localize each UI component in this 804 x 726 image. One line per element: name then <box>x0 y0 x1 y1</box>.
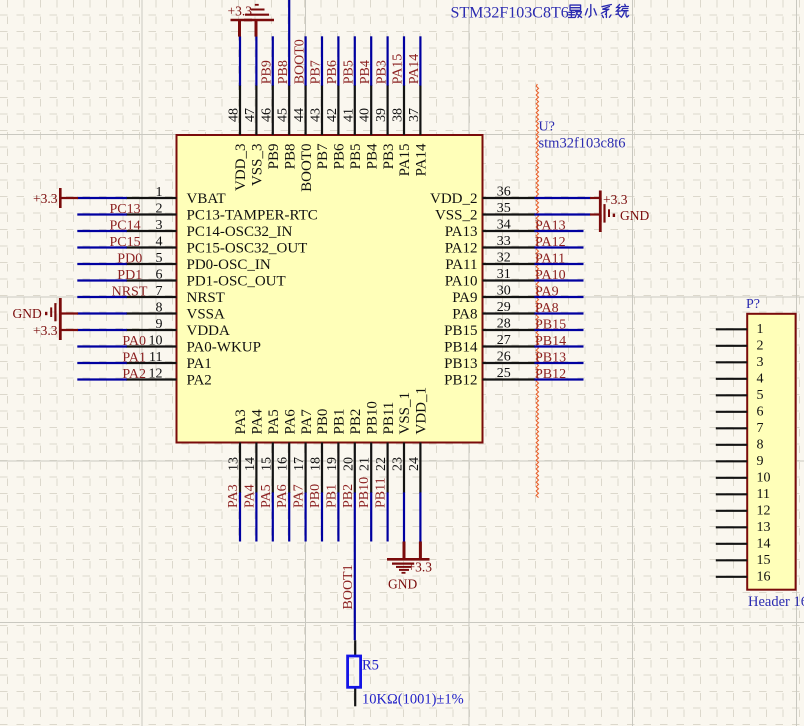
svg-text:PB0: PB0 <box>308 484 323 508</box>
header pin 4 (wire+name) <box>716 371 764 386</box>
pin 30 PA9 (wire+number+name) <box>452 284 583 307</box>
svg-text:8: 8 <box>757 437 764 452</box>
svg-text:PB13: PB13 <box>535 351 566 366</box>
svg-text:9: 9 <box>156 317 163 332</box>
svg-text:10KΩ(1001)±1%: 10KΩ(1001)±1% <box>362 692 464 708</box>
pin 28 PB15 (wire+number+name) <box>444 317 583 340</box>
pin 41 PB5 (wire+number+name) <box>341 36 364 169</box>
svg-text:STM32F103C8T6: STM32F103C8T6 <box>451 5 569 22</box>
pin 23 VSS_1 (wire+number+name) <box>391 392 414 542</box>
svg-text:Header 16: Header 16 <box>748 594 804 610</box>
pin 11 PA1 (wire+number+name) <box>77 350 212 372</box>
svg-text:PB11: PB11 <box>381 402 397 435</box>
svg-text:PB4: PB4 <box>358 60 373 84</box>
pin 39 PB3 (wire+number+name) <box>374 36 397 169</box>
svg-text:PB12: PB12 <box>444 373 477 389</box>
svg-text:PB8: PB8 <box>276 60 291 84</box>
power +3.3 (left, pin 9) <box>33 323 78 338</box>
svg-text:10: 10 <box>149 334 163 349</box>
svg-text:12: 12 <box>757 503 771 518</box>
svg-text:4: 4 <box>757 371 764 386</box>
pin 36 VDD_2 (wire+number+name) <box>430 185 591 208</box>
svg-text:PA14: PA14 <box>407 54 422 85</box>
pin 43 PB7 (wire+number+name) <box>309 36 332 169</box>
pin 4 PC15-OSC32_OUT (wire+number+name) <box>77 235 307 257</box>
header pin 2 (wire+name) <box>716 338 764 353</box>
svg-text:PB1: PB1 <box>324 484 339 508</box>
svg-text:PA1: PA1 <box>122 351 146 366</box>
svg-text:R5: R5 <box>362 658 379 674</box>
svg-text:PB11: PB11 <box>374 477 389 508</box>
svg-text:45: 45 <box>276 108 291 122</box>
svg-text:23: 23 <box>391 457 406 471</box>
svg-text:3: 3 <box>757 355 764 370</box>
header pin 10 (wire+name) <box>716 470 771 485</box>
resistor R5 pin wires <box>354 640 356 706</box>
svg-text:9: 9 <box>757 454 764 469</box>
svg-text:+3.3: +3.3 <box>408 560 433 575</box>
power GND (right, pin 35) <box>590 204 649 223</box>
svg-text:PB1: PB1 <box>332 409 348 435</box>
svg-text:33: 33 <box>497 234 511 249</box>
svg-text:12: 12 <box>149 367 163 382</box>
svg-text:21: 21 <box>358 457 373 471</box>
svg-text:11: 11 <box>149 350 162 365</box>
svg-text:PA12: PA12 <box>535 235 566 250</box>
svg-text:PA10: PA10 <box>535 268 566 283</box>
svg-text:VSSA: VSSA <box>187 307 226 323</box>
pin 26 PB13 (wire+number+name) <box>444 350 583 373</box>
svg-text:stm32f103c8t6: stm32f103c8t6 <box>539 136 626 152</box>
pin 37 PA14 (wire+number+name) <box>407 36 430 176</box>
svg-text:PC14-OSC32_IN: PC14-OSC32_IN <box>187 224 293 240</box>
svg-text:36: 36 <box>497 185 511 200</box>
svg-text:VBAT: VBAT <box>187 191 226 207</box>
pin 9 VDDA (wire+number+name) <box>77 317 230 339</box>
connector P? body (Header 16) <box>747 314 795 590</box>
svg-text:PB14: PB14 <box>444 340 478 356</box>
svg-text:NRST: NRST <box>187 290 225 306</box>
svg-text:44: 44 <box>292 108 307 122</box>
svg-text:14: 14 <box>757 536 771 551</box>
svg-text:35: 35 <box>497 201 511 216</box>
svg-text:25: 25 <box>497 366 511 381</box>
svg-text:VDD_3: VDD_3 <box>233 144 249 192</box>
svg-text:PB15: PB15 <box>535 318 566 333</box>
svg-text:PA2: PA2 <box>122 367 146 382</box>
svg-text:PA3: PA3 <box>233 409 249 434</box>
svg-text:PA13: PA13 <box>445 224 478 240</box>
pin 19 PB1 (wire+number+name) <box>325 409 348 542</box>
header pin 9 (wire+name) <box>716 454 764 469</box>
svg-text:3: 3 <box>156 218 163 233</box>
power GND (bottom, pin 23) <box>387 542 430 592</box>
resistor R5 body <box>348 656 361 687</box>
svg-text:PB12: PB12 <box>535 367 566 382</box>
svg-text:16: 16 <box>757 569 771 584</box>
pin 5 PD0-OSC_IN (wire+number+name) <box>77 251 271 273</box>
header pin 12 (wire+name) <box>716 503 771 518</box>
svg-text:PA2: PA2 <box>187 373 212 389</box>
pin 22 PB11 (wire+number+name) <box>374 402 397 542</box>
svg-text:2: 2 <box>156 202 163 217</box>
svg-text:PA9: PA9 <box>452 290 477 306</box>
IC U? body (STM32F103C8T6) <box>177 135 483 443</box>
svg-text:10: 10 <box>757 470 771 485</box>
svg-text:34: 34 <box>497 218 511 233</box>
svg-text:5: 5 <box>757 388 764 403</box>
power +3.3 (top, pin 48) <box>228 4 253 37</box>
svg-text:27: 27 <box>497 333 511 348</box>
svg-text:PB10: PB10 <box>364 401 380 434</box>
svg-text:39: 39 <box>374 108 389 122</box>
wire squiggle (orange selection zigzag) <box>536 84 538 498</box>
power +3.3 (bottom, pin 24) <box>408 542 433 575</box>
pin 25 PB12 (wire+number+name) <box>444 366 583 389</box>
svg-text:GND: GND <box>13 306 42 321</box>
svg-text:29: 29 <box>497 300 511 315</box>
svg-text:VDDA: VDDA <box>187 323 230 339</box>
power GND (left, pin 8) <box>13 298 78 340</box>
pin 42 PB6 (wire+number+name) <box>325 36 348 169</box>
svg-text:PB3: PB3 <box>374 60 389 84</box>
svg-text:PA5: PA5 <box>266 409 282 434</box>
svg-text:PB5: PB5 <box>348 144 364 170</box>
svg-text:28: 28 <box>497 317 511 332</box>
svg-text:PD0: PD0 <box>117 252 142 267</box>
svg-text:PA7: PA7 <box>292 484 307 508</box>
svg-text:PB4: PB4 <box>364 143 380 169</box>
svg-text:PB7: PB7 <box>315 143 331 169</box>
svg-text:16: 16 <box>276 457 291 471</box>
pin 38 PA15 (wire+number+name) <box>391 36 414 176</box>
svg-text:+3.3: +3.3 <box>33 323 58 338</box>
svg-text:PA14: PA14 <box>414 143 430 176</box>
svg-text:PA8: PA8 <box>452 307 477 323</box>
svg-text:7: 7 <box>757 421 764 436</box>
svg-text:+3.3: +3.3 <box>228 4 253 19</box>
svg-text:VSS_2: VSS_2 <box>435 208 478 224</box>
svg-text:PA15: PA15 <box>391 54 406 85</box>
pin 20 PB2 (wire+number+name) <box>341 409 364 641</box>
svg-text:P?: P? <box>746 297 760 312</box>
svg-text:46: 46 <box>259 108 274 122</box>
svg-text:38: 38 <box>391 108 406 122</box>
svg-text:VDD_2: VDD_2 <box>430 191 478 207</box>
pin 27 PB14 (wire+number+name) <box>444 333 583 356</box>
pin 48 VDD_3 (wire+number+name) <box>227 36 250 191</box>
svg-text:PD1-OSC_OUT: PD1-OSC_OUT <box>187 274 286 290</box>
svg-text:8: 8 <box>156 301 163 316</box>
svg-text:6: 6 <box>757 404 764 419</box>
svg-text:PB13: PB13 <box>444 356 477 372</box>
svg-text:PA1: PA1 <box>187 356 212 372</box>
pin 16 PA6 (wire+number+name) <box>276 409 299 542</box>
svg-text:PC13: PC13 <box>110 202 141 217</box>
svg-text:24: 24 <box>407 457 422 471</box>
pin 1 VBAT (wire+number+name) <box>77 185 225 207</box>
svg-text:PB8: PB8 <box>282 144 298 170</box>
pin 45 PB8 (wire+number+name) <box>276 0 299 169</box>
svg-text:PB7: PB7 <box>309 60 324 84</box>
svg-text:BOOT1: BOOT1 <box>341 564 356 609</box>
svg-text:PB2: PB2 <box>341 484 356 508</box>
svg-text:PC13-TAMPER-RTC: PC13-TAMPER-RTC <box>187 208 318 224</box>
svg-text:PA4: PA4 <box>242 484 257 508</box>
svg-text:4: 4 <box>156 235 163 250</box>
svg-text:PA11: PA11 <box>535 252 565 267</box>
pin 7 NRST (wire+number+name) <box>77 284 225 306</box>
svg-text:15: 15 <box>757 553 771 568</box>
svg-text:PB9: PB9 <box>260 60 275 84</box>
svg-text:43: 43 <box>309 108 324 122</box>
header pin 8 (wire+name) <box>716 437 764 452</box>
pin 29 PA8 (wire+number+name) <box>452 300 583 323</box>
header pin 3 (wire+name) <box>716 355 764 370</box>
svg-text:VSS_3: VSS_3 <box>250 144 266 187</box>
svg-text:32: 32 <box>497 251 511 266</box>
header pin 7 (wire+name) <box>716 421 764 436</box>
power +3.3 (left, pin 1) <box>33 188 78 208</box>
pin 17 PA7 (wire+number+name) <box>292 409 315 542</box>
pin 24 VDD_1 (wire+number+name) <box>407 387 430 542</box>
power +3.3 (right, pin 36) <box>590 191 628 233</box>
svg-text:PA6: PA6 <box>282 409 298 435</box>
svg-text:PB6: PB6 <box>332 143 348 169</box>
svg-text:PA13: PA13 <box>535 219 566 234</box>
pin 8 VSSA (wire+number+name) <box>77 301 225 323</box>
svg-text:14: 14 <box>243 457 258 471</box>
pin 14 PA4 (wire+number+name) <box>243 409 266 542</box>
svg-text:+3.3: +3.3 <box>33 191 58 206</box>
svg-text:15: 15 <box>259 457 274 471</box>
pin 3 PC14-OSC32_IN (wire+number+name) <box>77 218 292 240</box>
svg-text:PB2: PB2 <box>348 409 364 435</box>
svg-text:18: 18 <box>309 457 324 471</box>
pin 6 PD1-OSC_OUT (wire+number+name) <box>77 268 285 290</box>
pin 18 PB0 (wire+number+name) <box>309 409 332 542</box>
header pin 5 (wire+name) <box>716 388 764 403</box>
header pin 15 (wire+name) <box>716 553 771 568</box>
svg-text:BOOT0: BOOT0 <box>292 39 307 84</box>
header pin 6 (wire+name) <box>716 404 764 419</box>
svg-text:PB10: PB10 <box>357 477 372 508</box>
svg-text:PD0-OSC_IN: PD0-OSC_IN <box>187 257 271 273</box>
svg-text:2: 2 <box>757 338 764 353</box>
pin 44 BOOT0 (wire+number+name) <box>292 36 315 192</box>
svg-text:PA3: PA3 <box>226 484 241 508</box>
pin 33 PA12 (wire+number+name) <box>445 234 584 257</box>
svg-text:BOOT0: BOOT0 <box>299 144 315 192</box>
svg-text:PB6: PB6 <box>325 60 340 84</box>
svg-text:PC15: PC15 <box>110 235 141 250</box>
svg-text:PA15: PA15 <box>397 144 413 177</box>
svg-text:PB15: PB15 <box>444 323 477 339</box>
svg-text:40: 40 <box>358 108 373 122</box>
svg-text:13: 13 <box>227 457 242 471</box>
svg-text:PA11: PA11 <box>445 257 477 273</box>
svg-text:13: 13 <box>757 520 771 535</box>
svg-text:48: 48 <box>227 108 242 122</box>
svg-text:19: 19 <box>325 457 340 471</box>
svg-text:11: 11 <box>757 487 770 502</box>
svg-text:+3.3: +3.3 <box>603 192 628 207</box>
svg-text:30: 30 <box>497 284 511 299</box>
pin 32 PA11 (wire+number+name) <box>445 251 583 274</box>
svg-text:PA10: PA10 <box>445 274 478 290</box>
pin 31 PA10 (wire+number+name) <box>445 267 584 290</box>
pin 40 PB4 (wire+number+name) <box>358 36 381 169</box>
svg-text:PB0: PB0 <box>315 409 331 435</box>
svg-text:5: 5 <box>156 251 163 266</box>
svg-text:PB9: PB9 <box>266 144 282 170</box>
svg-text:PA9: PA9 <box>535 285 559 300</box>
pin 10 PA0-WKUP (wire+number+name) <box>77 334 261 356</box>
svg-text:PA0: PA0 <box>122 334 146 349</box>
svg-text:PC15-OSC32_OUT: PC15-OSC32_OUT <box>187 241 308 257</box>
header pin 11 (wire+name) <box>716 487 770 502</box>
pin 46 PB9 (wire+number+name) <box>259 36 282 169</box>
svg-text:PA6: PA6 <box>275 484 290 508</box>
svg-text:20: 20 <box>341 457 356 471</box>
svg-text:PA4: PA4 <box>250 409 266 435</box>
header pin 1 (wire+name) <box>716 322 764 337</box>
pin 12 PA2 (wire+number+name) <box>77 367 212 389</box>
svg-text:PA12: PA12 <box>445 241 478 257</box>
svg-text:PA0-WKUP: PA0-WKUP <box>187 340 261 356</box>
header pin 13 (wire+name) <box>716 520 771 535</box>
header pin 14 (wire+name) <box>716 536 771 551</box>
svg-text:17: 17 <box>292 457 307 471</box>
svg-text:NRST: NRST <box>112 285 148 300</box>
svg-text:31: 31 <box>497 267 511 282</box>
svg-text:GND: GND <box>388 577 417 592</box>
pin 47 VSS_3 (wire+number+name) <box>243 36 266 186</box>
svg-text:PA8: PA8 <box>535 301 559 316</box>
svg-text:PB5: PB5 <box>342 60 357 84</box>
pin 35 VSS_2 (wire+number+name) <box>435 201 591 224</box>
svg-text:47: 47 <box>243 108 258 122</box>
svg-text:41: 41 <box>341 108 356 122</box>
power GND inverted (top, pin 47) <box>244 5 274 37</box>
svg-text:7: 7 <box>156 284 163 299</box>
svg-text:PA7: PA7 <box>299 409 315 435</box>
svg-text:1: 1 <box>156 185 163 200</box>
svg-text:PC14: PC14 <box>110 219 141 234</box>
pin 15 PA5 (wire+number+name) <box>259 409 282 541</box>
svg-text:PB3: PB3 <box>381 144 397 170</box>
pin 21 PB10 (wire+number+name) <box>358 401 381 541</box>
svg-text:VSS_1: VSS_1 <box>397 392 413 435</box>
pin 2 PC13-TAMPER-RTC (wire+number+name) <box>77 202 317 224</box>
svg-text:6: 6 <box>156 268 163 283</box>
header pin 16 (wire+name) <box>716 569 771 584</box>
svg-text:PD1: PD1 <box>117 268 142 283</box>
svg-text:42: 42 <box>325 108 340 122</box>
svg-text:VDD_1: VDD_1 <box>414 387 430 435</box>
svg-text:22: 22 <box>374 457 389 471</box>
svg-text:GND: GND <box>620 208 649 223</box>
svg-text:26: 26 <box>497 350 511 365</box>
title text 最小系统 (CJK strokes) <box>569 4 629 17</box>
svg-text:PB14: PB14 <box>535 334 566 349</box>
pin 34 PA13 (wire+number+name) <box>445 218 584 241</box>
svg-text:37: 37 <box>407 108 422 122</box>
pin 13 PA3 (wire+number+name) <box>227 409 250 541</box>
svg-text:1: 1 <box>757 322 764 337</box>
svg-text:U?: U? <box>539 120 555 135</box>
svg-text:PA5: PA5 <box>259 484 274 508</box>
